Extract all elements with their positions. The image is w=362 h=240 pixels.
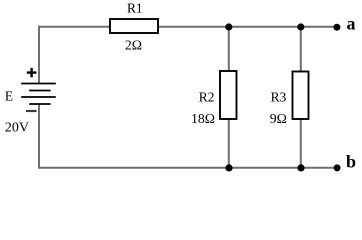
wire top horizontal from battery to terminal a bbox=[39, 26, 337, 28]
svg-text:a: a bbox=[347, 14, 356, 34]
wire bottom horizontal from battery to terminal b bbox=[38, 167, 337, 169]
resistor R1 box bbox=[110, 19, 158, 33]
node junction bottom R2 bbox=[225, 164, 232, 171]
node junction top R2 bbox=[225, 23, 232, 30]
svg-text:b: b bbox=[346, 152, 356, 172]
svg-text:R2: R2 bbox=[199, 90, 215, 105]
battery E plates bbox=[21, 84, 56, 105]
wire left vertical from top wire down to battery + plate bbox=[38, 26, 40, 84]
svg-text:2Ω: 2Ω bbox=[125, 38, 142, 53]
wire from top node down to R3 bbox=[300, 27, 302, 72]
svg-text:9Ω: 9Ω bbox=[270, 111, 287, 126]
node junction bottom R3 bbox=[297, 164, 304, 171]
terminal a dot bbox=[333, 24, 340, 31]
resistor R2 box bbox=[220, 71, 237, 119]
svg-text:18Ω: 18Ω bbox=[191, 111, 215, 126]
node junction top R3 bbox=[297, 23, 304, 30]
battery - polarity mark bbox=[26, 110, 37, 112]
svg-text:R3: R3 bbox=[271, 90, 287, 105]
resistor R3 box bbox=[293, 72, 309, 120]
wire from R2 down to bottom node bbox=[228, 119, 230, 168]
svg-text:20V: 20V bbox=[5, 120, 29, 135]
battery + polarity mark bbox=[27, 68, 37, 77]
svg-text:R1: R1 bbox=[127, 1, 143, 16]
terminal b dot bbox=[334, 164, 341, 171]
wire from top node down to R2 bbox=[228, 27, 230, 72]
wire from battery - plate down to bottom wire bbox=[38, 104, 40, 168]
svg-text:E: E bbox=[5, 89, 13, 104]
wire from R3 down to bottom node bbox=[300, 119, 302, 168]
